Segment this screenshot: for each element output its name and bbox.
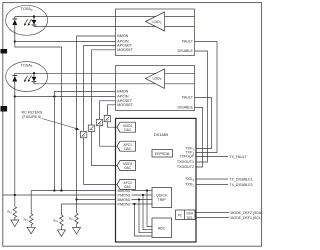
laser diode D1 (TOSA2)	[32, 15, 37, 26]
node V1 joins BMON1 row	[60, 189, 62, 191]
dac MOD2	[117, 161, 136, 171]
svg-text:APCSET: APCSET	[117, 99, 132, 103]
svg-text:TXDOUT2: TXDOUT2	[177, 165, 194, 169]
wire adc feed 2	[143, 195, 152, 230]
ground GND4	[73, 228, 81, 235]
svg-text:DISABLE: DISABLE	[177, 106, 193, 110]
svg-text:FAULT: FAULT	[182, 96, 194, 100]
adc ADC box	[152, 218, 172, 238]
dac MOD1	[117, 122, 136, 132]
svg-text:TXD1: TXD1	[185, 177, 194, 182]
svg-text:LDD1: LDD1	[152, 76, 161, 81]
svg-text:RB2: RB2	[53, 219, 58, 224]
controller IC U1 (DS1865) box	[116, 118, 197, 242]
svg-text:FAULT: FAULT	[182, 40, 194, 44]
svg-text:APC2: APC2	[124, 181, 133, 185]
wire DISABLE2 to TXDOUT1	[195, 51, 208, 162]
svg-text:MODE_DEF1 (SCL): MODE_DEF1 (SCL)	[231, 216, 263, 220]
svg-text:SDA: SDA	[187, 211, 194, 215]
I2C divider	[184, 210, 186, 220]
svg-text:TX_DISABLE2: TX_DISABLE2	[230, 183, 253, 187]
svg-text:DISABLE: DISABLE	[177, 49, 193, 53]
node riser joins BMON1 row	[53, 189, 55, 191]
svg-text:PMON1: PMON1	[118, 193, 131, 197]
wire laser1 top rail	[15, 72, 195, 74]
node TOSA1 monitor junction	[14, 95, 16, 97]
wire FAULT2 to TXF2	[195, 42, 218, 153]
svg-text:APCSET: APCSET	[117, 44, 132, 48]
wire BMON riser (LDD1) down to BMON1 row	[54, 92, 115, 191]
wire MODSET2 from MOD2 DAC	[92, 50, 118, 166]
dac APC1	[117, 141, 136, 151]
svg-text:DAC: DAC	[124, 166, 131, 170]
TOSA2 ellipse	[6, 5, 48, 35]
laser diode D3 (TOSA1)	[32, 72, 37, 84]
ground GND3	[57, 230, 65, 237]
svg-text:BMON: BMON	[117, 90, 128, 94]
wire FAULT1 to TXF1	[195, 98, 212, 149]
ground GND2	[27, 227, 35, 234]
wire laser1 bottom rail	[34, 83, 195, 85]
photodiode D4 (monitor, TOSA1)	[12, 73, 17, 96]
wire TOSA1 monitor down to RB1	[14, 97, 16, 197]
svg-text:TXDOUT1: TXDOUT1	[177, 160, 194, 164]
svg-text:MODSET: MODSET	[117, 103, 133, 107]
interface I2C box	[176, 210, 196, 220]
node RB1 on PMON1 row	[14, 194, 16, 196]
svg-text:TRIP: TRIP	[158, 198, 167, 202]
svg-text:MODSET: MODSET	[117, 48, 133, 52]
wire PMON2 internal	[132, 203, 153, 205]
wire TXD2 to TX_DISABLE2	[196, 184, 228, 186]
wire BMON2 row	[77, 199, 116, 201]
svg-text:TX_DISABLE1: TX_DISABLE1	[230, 177, 253, 181]
wire BMON1 row	[31, 190, 115, 192]
node qt3	[138, 198, 140, 200]
wire TXD1 to TX_DISABLE1	[196, 178, 228, 180]
svg-text:DAC: DAC	[124, 147, 131, 151]
wire DISABLE1 to TXDOUT2	[195, 108, 203, 168]
node BMON1 riser tap	[53, 95, 55, 97]
rc filter F1 box	[104, 115, 110, 121]
resistor RB2	[60, 204, 64, 230]
svg-text:EEPROM: EEPROM	[155, 152, 170, 156]
svg-text:DAC: DAC	[124, 128, 131, 132]
annotation arrow to rc filters	[42, 119, 80, 130]
svg-text:APCIN: APCIN	[117, 40, 129, 44]
node TOSA2 monitor junction	[14, 40, 16, 42]
connector pad P1	[1, 106, 8, 112]
svg-text:TX_FAULT: TX_FAULT	[230, 155, 248, 159]
light arrows TOSA2	[24, 19, 32, 26]
node qt2	[142, 194, 144, 196]
wire adc feed 4	[135, 204, 153, 236]
resistor RP1	[29, 191, 33, 228]
wire TOSA1 monitor to APCIN (LDD1)	[15, 96, 116, 98]
wire TOSA2 monitor to APCIN (LDD2)	[15, 41, 116, 43]
wire APCSET2 from APC2 DAC	[84, 46, 117, 185]
wire BMON riser (LDD2) long vertical	[77, 36, 116, 200]
border frame	[3, 3, 262, 247]
svg-text:TXFOUT: TXFOUT	[179, 155, 194, 159]
wire laser2 bottom rail	[34, 26, 195, 28]
svg-text:DS1865: DS1865	[154, 132, 169, 137]
svg-text:MODE_DEF2 (SDA): MODE_DEF2 (SDA)	[231, 211, 263, 215]
rc filter F2 box	[96, 119, 102, 125]
svg-text:QUICK: QUICK	[156, 194, 168, 198]
wire BMON1 internal	[132, 190, 153, 192]
node qt1	[146, 189, 148, 191]
svg-text:(FIGURE 6): (FIGURE 6)	[22, 115, 41, 119]
svg-text:BMON: BMON	[117, 34, 128, 38]
svg-text:APC1: APC1	[124, 143, 133, 147]
svg-text:ADC: ADC	[158, 227, 166, 231]
resistor RB1	[13, 195, 17, 220]
wire PMON1 internal	[132, 194, 153, 196]
svg-text:I2C: I2C	[177, 213, 182, 218]
photodiode D2 (monitor, TOSA2)	[12, 17, 17, 42]
op-amp LDD2 triangle	[146, 12, 165, 31]
node qt4	[133, 203, 135, 205]
svg-text:TOSA1: TOSA1	[21, 64, 33, 69]
svg-text:APCIN: APCIN	[117, 95, 129, 99]
svg-text:LDD2: LDD2	[152, 20, 161, 25]
wire adc feed 3	[139, 200, 152, 233]
light arrows TOSA1	[24, 76, 32, 83]
node V3 joins BMON2 row / RP2	[75, 198, 77, 200]
connector pad P2	[1, 49, 8, 54]
svg-text:MOD1: MOD1	[123, 124, 132, 128]
ground GND1	[11, 220, 19, 227]
svg-text:MOD2: MOD2	[123, 162, 132, 166]
wire SCL to MOD_DEF1	[196, 217, 229, 219]
svg-text:PMON2: PMON2	[118, 202, 131, 206]
resistor RP2	[75, 200, 79, 228]
laser driver U3 (LDD1) box	[116, 66, 195, 111]
svg-text:BMON2: BMON2	[118, 198, 131, 202]
svg-text:RP1: RP1	[24, 218, 29, 223]
wire laser2 top rail	[15, 16, 195, 18]
svg-text:RC FILTERS: RC FILTERS	[22, 111, 43, 115]
svg-text:SCL: SCL	[187, 216, 193, 220]
wire MODSET1 from MOD1 DAC	[107, 105, 117, 127]
dac APC2	[117, 179, 136, 189]
svg-text:RB1: RB1	[7, 210, 12, 215]
wire adc feed 1	[147, 191, 152, 227]
wire APCSET1 from APC1 DAC	[100, 101, 118, 146]
op-amp LDD1 triangle	[146, 69, 165, 89]
comparator QUICK TRIP box	[152, 188, 172, 208]
laser driver U2 (LDD2) box	[116, 9, 195, 56]
rc filter F3 box	[88, 125, 94, 131]
wire SDA to MOD_DEF2	[196, 212, 229, 214]
wire TXFOUT to TX_FAULT	[196, 156, 228, 158]
memory EEPROM box	[152, 150, 173, 158]
svg-text:TOSA2: TOSA2	[21, 7, 33, 12]
rc filter F4 box	[80, 131, 86, 137]
svg-text:BMON1: BMON1	[118, 189, 131, 193]
wire PMON1 row	[3, 194, 116, 196]
wire PMON2 row	[61, 203, 115, 205]
TOSA1 ellipse	[6, 62, 48, 92]
wire BMON2 internal	[132, 199, 153, 201]
svg-text:TXD2: TXD2	[185, 183, 194, 188]
svg-text:RP2: RP2	[69, 217, 74, 222]
wire TOSA2 monitor jog down to PMON2 row	[15, 42, 62, 191]
